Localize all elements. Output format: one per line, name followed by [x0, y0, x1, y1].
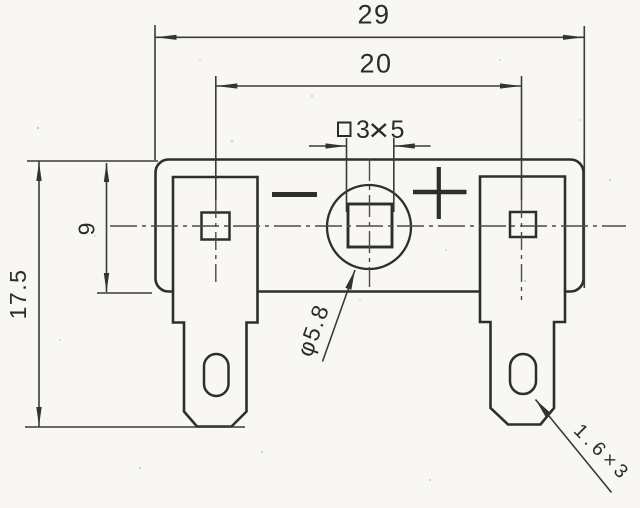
svg-text:3: 3 [356, 116, 370, 144]
body outline (rounded rectangle) [156, 160, 584, 292]
dim 20: extension line right (tab centre) [521, 76, 523, 200]
dim 29: extension line right (runs along body right edge) [583, 26, 585, 288]
left tab (terminal lug) [173, 177, 258, 427]
svg-text:29: 29 [357, 0, 390, 30]
svg-text:5: 5 [391, 116, 405, 144]
right tab oval hole [510, 354, 536, 394]
top extension line (left, body-top level) [27, 160, 158, 162]
dim text square-symbol of 3x5 [338, 123, 351, 137]
dim 20: extension line left (tab centre) [215, 76, 217, 200]
vertical centreline centre hole [369, 159, 371, 287]
dim 17.5: dimension line with arrows [38, 162, 40, 427]
plus polarity mark [413, 190, 467, 195]
right tab (terminal lug) [480, 177, 565, 425]
left tab square hole [202, 213, 230, 240]
svg-text:φ5.8: φ5.8 [292, 300, 335, 360]
dim 29: dimension line [155, 36, 584, 38]
dim 9: bottom extension line (body-bottom level) [97, 292, 152, 294]
dim 3x5: left arrow line + head (points right) [309, 145, 347, 147]
dim 3x5: extension line right [393, 138, 395, 212]
dim 20: arrowheads [216, 83, 237, 88]
dim 29: arrowheads [156, 35, 177, 40]
svg-text:20: 20 [359, 49, 392, 79]
centre square hole (3x5) [348, 204, 392, 247]
dim 9: dimension line with arrows [106, 163, 108, 292]
dim 20: dimension line [216, 85, 522, 87]
svg-text:9: 9 [74, 223, 100, 236]
dim 3x5: extension line left [346, 138, 348, 212]
leader line for 1.6x3 with arrowhead [536, 400, 612, 493]
dim 3x5: right arrow line + head (points left) [394, 145, 431, 147]
leader line for phi 5.8 with arrowhead [323, 270, 356, 362]
svg-text:17.5: 17.5 [5, 269, 31, 320]
horizontal centreline through holes [110, 225, 626, 227]
centre circle (phi 5.8 hole) [327, 185, 411, 269]
dim 29: extension line left [154, 25, 156, 160]
vertical centreline right tab [521, 200, 523, 300]
dim 17.5: bottom extension line (tab-bottom level) [25, 426, 245, 428]
vertical centreline left tab [215, 200, 217, 285]
left tab oval hole [204, 354, 229, 396]
minus polarity mark [272, 192, 317, 197]
right tab square hole [510, 212, 536, 237]
